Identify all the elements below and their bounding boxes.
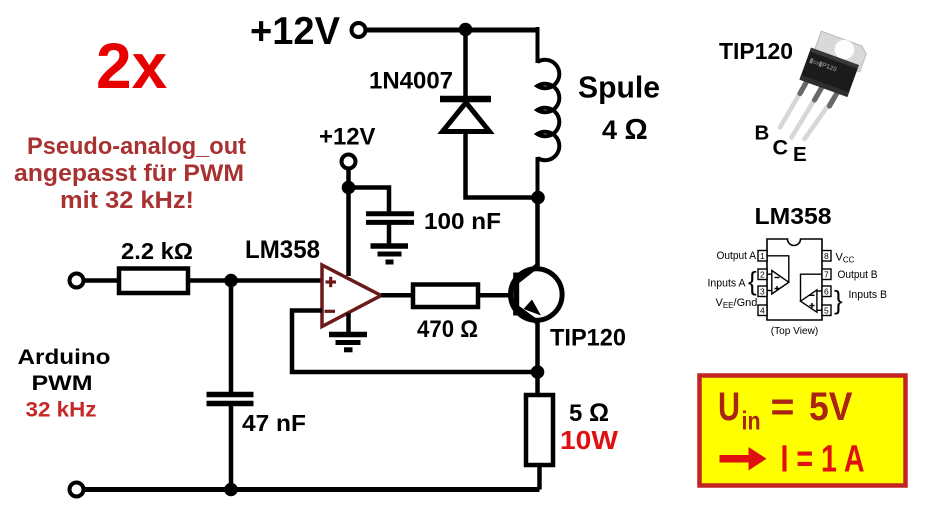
- note Pseudo-analog_out: [14, 133, 246, 214]
- node bottom cap junction: [224, 483, 238, 497]
- svg-text:Output B: Output B: [838, 269, 878, 281]
- pin numbers: [760, 251, 829, 316]
- terminal +12V opamp supply: [342, 155, 356, 169]
- capacitor C2 100nF: [366, 211, 414, 216]
- svg-text:Inputs A: Inputs A: [708, 278, 747, 290]
- node RC junction: [224, 274, 238, 288]
- svg-text:Spule: Spule: [578, 70, 660, 105]
- svg-text:4 Ω: 4 Ω: [602, 114, 648, 146]
- svg-text:10W: 10W: [560, 425, 618, 455]
- svg-text:TIP120: TIP120: [550, 325, 626, 352]
- LM358 pinout diagram: [708, 203, 888, 337]
- svg-text:}: }: [834, 285, 843, 315]
- opamp minus sign: [325, 310, 336, 313]
- photo legs: [780, 81, 837, 139]
- wire diode branch down: [463, 30, 468, 97]
- wire emitter down: [535, 320, 540, 395]
- ground below opamp: [346, 313, 351, 334]
- svg-text:Arduino: Arduino: [18, 346, 111, 369]
- wire resistor to rail: [537, 465, 542, 490]
- svg-text:Pseudo-analog_out: Pseudo-analog_out: [27, 133, 246, 160]
- wire diode anode down and right: [466, 132, 539, 198]
- svg-text:5: 5: [824, 306, 829, 316]
- node emitter/feedback: [531, 365, 545, 379]
- svg-text:1N4007: 1N4007: [369, 68, 453, 95]
- capacitor C1 47nF: [229, 281, 234, 393]
- svg-text:TIP120: TIP120: [719, 38, 793, 64]
- svg-text:E: E: [793, 143, 807, 166]
- svg-text:8: 8: [824, 251, 829, 261]
- opamp A: [767, 256, 789, 294]
- wire feedback: [292, 311, 538, 373]
- svg-text:angepasst für PWM: angepasst für PWM: [14, 160, 244, 187]
- result box: [700, 376, 906, 486]
- svg-text:3: 3: [760, 287, 765, 297]
- svg-text:6: 6: [824, 287, 829, 297]
- svg-text:LM358: LM358: [245, 236, 320, 264]
- resistor R3 5 ohm: [526, 395, 553, 465]
- svg-text:Inputs B: Inputs B: [849, 289, 888, 301]
- wire top rail: [366, 28, 538, 33]
- node supply junction: [342, 181, 356, 195]
- svg-text:4: 4: [760, 306, 765, 316]
- wire to 100nF: [349, 188, 390, 213]
- wire opamp output: [381, 293, 413, 298]
- svg-text:470 Ω: 470 Ω: [417, 316, 478, 343]
- arrow and I = 1 A: [720, 439, 865, 481]
- svg-text:32 kHz: 32 kHz: [26, 399, 97, 422]
- pins left: [758, 251, 831, 316]
- svg-text:in: in: [742, 406, 761, 436]
- svg-text:U: U: [718, 385, 740, 429]
- svg-text:mit 32 kHz!: mit 32 kHz!: [60, 187, 194, 214]
- svg-text:Output A: Output A: [717, 250, 757, 262]
- label Uin = 5V: [718, 385, 853, 436]
- svg-text:100 nF: 100 nF: [424, 208, 501, 234]
- photo body: [799, 48, 859, 97]
- svg-text:7: 7: [824, 270, 829, 280]
- pin labels: [708, 250, 888, 337]
- TIP120 photo: [719, 30, 868, 166]
- opamp B: [801, 274, 823, 312]
- ground below 100nF: [371, 243, 409, 249]
- opamp plus sign: [326, 277, 337, 287]
- wire collector: [535, 198, 540, 269]
- svg-text:47 nF: 47 nF: [242, 410, 306, 436]
- op-amp U1: [322, 265, 381, 327]
- wire input: [84, 278, 120, 283]
- svg-text:LM358: LM358: [755, 203, 832, 229]
- node coil bottom: [531, 191, 545, 205]
- wire bottom rail: [84, 487, 540, 492]
- svg-text:=: =: [771, 385, 795, 429]
- terminal +12V top: [352, 23, 366, 37]
- wire to opamp +: [188, 278, 322, 283]
- svg-text:1: 1: [760, 251, 765, 261]
- node diode tap: [459, 23, 473, 37]
- inductor L1 Spule: [538, 27, 560, 198]
- svg-text:5V: 5V: [809, 385, 853, 429]
- svg-text:{: {: [748, 266, 757, 296]
- svg-text:2.2 kΩ: 2.2 kΩ: [121, 238, 193, 264]
- svg-text:C: C: [773, 136, 789, 160]
- diode D1 1N4007 cathode bar: [440, 96, 491, 103]
- svg-text:(Top View): (Top View): [771, 325, 819, 337]
- svg-text:I = 1 A: I = 1 A: [781, 439, 865, 481]
- photo tab: [813, 31, 869, 72]
- svg-text:+12V: +12V: [250, 10, 340, 53]
- DIP body: [767, 239, 822, 320]
- terminal input left: [70, 274, 84, 288]
- svg-text:VEE/Gnd: VEE/Gnd: [716, 297, 758, 310]
- resistor R2 470: [413, 285, 478, 308]
- svg-text:PWM: PWM: [32, 372, 93, 395]
- wire to base: [478, 293, 514, 298]
- transistor Q1 TIP120: [511, 269, 563, 321]
- svg-text:B: B: [755, 122, 770, 145]
- diode D1 triangle: [443, 103, 490, 132]
- wire supply down: [346, 170, 351, 276]
- svg-text:+12V: +12V: [319, 124, 376, 151]
- svg-text:2: 2: [760, 270, 765, 280]
- svg-text:2x: 2x: [96, 30, 168, 102]
- svg-text:5 Ω: 5 Ω: [569, 399, 609, 427]
- resistor R1 2.2k: [119, 269, 188, 294]
- terminal bottom left: [70, 483, 84, 497]
